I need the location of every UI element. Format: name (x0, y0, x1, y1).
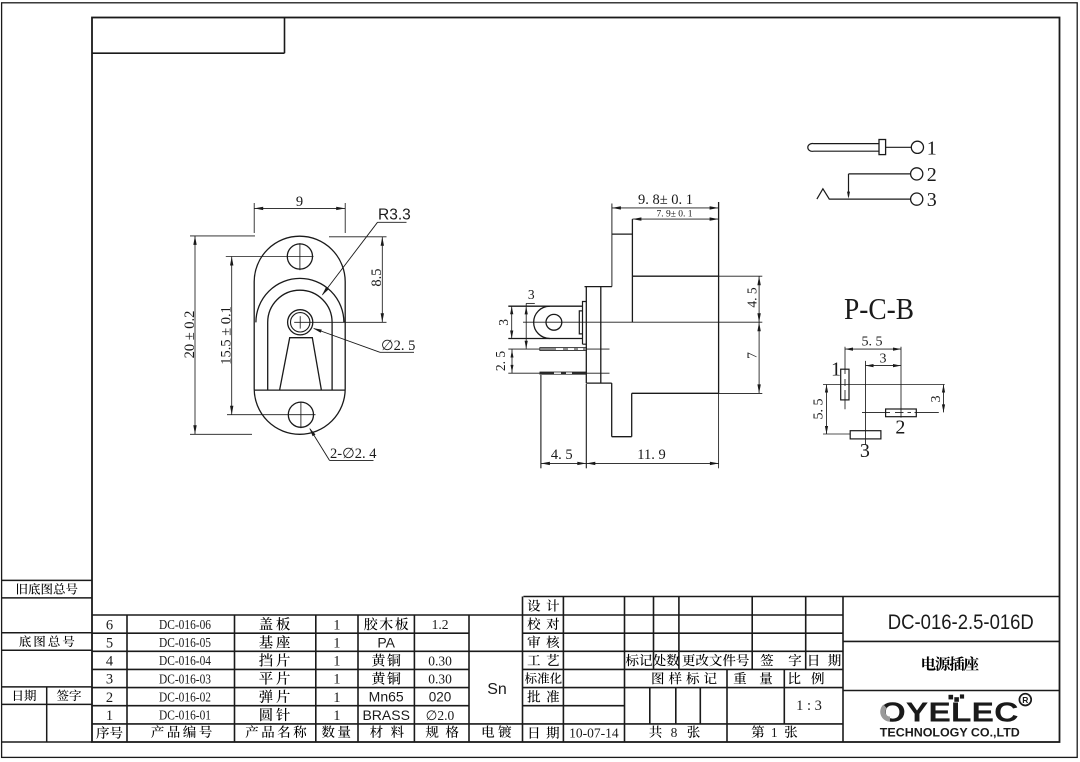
front view outer arch R (256, 278, 344, 322)
approval 日期 (530, 727, 539, 739)
part name row 6 (259, 617, 272, 630)
product name dian-yuan-cha-zuo (922, 656, 935, 670)
side view solder lug (508, 305, 582, 307)
svg-text:1: 1 (106, 708, 113, 724)
label ri-qi left (14, 690, 22, 701)
svg-text:DC-016-06: DC-016-06 (159, 617, 211, 632)
header zhong-liang (734, 672, 746, 684)
material row 6 (364, 617, 377, 630)
svg-text:DC-016-2.5-016D: DC-016-2.5-016D (888, 611, 1034, 634)
label jiu-di-tu-zong-hao (17, 584, 27, 595)
approval 校对 (527, 618, 540, 631)
svg-text:1 : 3: 1 : 3 (796, 698, 822, 714)
header ri-qi mid (809, 655, 818, 667)
front view center pin hole (288, 310, 313, 335)
svg-text:8: 8 (671, 725, 678, 740)
svg-text:Sn: Sn (487, 681, 507, 698)
side view inner vertical edge (631, 219, 633, 322)
side view wide boss (583, 302, 587, 345)
header chu-shu (653, 654, 666, 667)
zhang1 (687, 726, 699, 738)
part name row 1 (260, 708, 272, 721)
schematic terminal circle 1 (911, 141, 923, 153)
front view bottom mounting hole (288, 402, 313, 427)
svg-text:4: 4 (106, 654, 114, 670)
svg-text:DC-016-05: DC-016-05 (159, 635, 211, 650)
svg-text:1: 1 (333, 617, 340, 633)
svg-text:BRASS: BRASS (362, 707, 409, 723)
svg-text:3: 3 (927, 189, 937, 211)
part name row 4 (259, 653, 272, 666)
svg-text:3: 3 (528, 287, 535, 302)
header xu-hao (96, 726, 109, 739)
header chan-pin-bian-hao (151, 725, 164, 738)
svg-text:2. 5: 2. 5 (493, 351, 508, 372)
front view top mounting hole (287, 244, 312, 269)
svg-text:2: 2 (106, 690, 113, 706)
svg-text:4. 5: 4. 5 (551, 447, 573, 463)
front view outer stadium body (254, 236, 345, 434)
svg-text:DC-016-01: DC-016-01 (159, 708, 211, 723)
svg-text:1: 1 (333, 672, 340, 688)
approval 审核 (528, 636, 541, 649)
side view flange bottom step (586, 382, 611, 384)
pcb row line 2 (862, 411, 939, 413)
svg-text:11. 9: 11. 9 (637, 447, 665, 463)
header cai-liao (370, 725, 383, 737)
svg-text:1: 1 (831, 359, 841, 381)
material row 3 (372, 672, 385, 685)
approval 批准 (527, 690, 540, 702)
svg-text:1: 1 (771, 725, 778, 740)
schematic pin 1 plug symbol (808, 143, 879, 151)
part name row 3 (259, 672, 272, 685)
pcb row line 1 (823, 384, 945, 386)
di (752, 725, 765, 737)
svg-text:3: 3 (880, 351, 887, 366)
zhang2 (785, 726, 797, 738)
svg-text:0.30: 0.30 (428, 653, 452, 668)
side view right edge (718, 202, 720, 393)
approval 工艺 (528, 655, 540, 665)
svg-text:3: 3 (860, 440, 870, 462)
left margin column boxes (2, 579, 92, 581)
svg-text:OYELEC: OYELEC (880, 697, 1019, 728)
logo checker dots (949, 695, 954, 700)
top-left accessory box (92, 52, 285, 54)
side view lower-left body lines (540, 375, 542, 468)
header shu-liang (322, 725, 335, 737)
svg-text:20 ± 0.2: 20 ± 0.2 (182, 311, 198, 359)
pcb pad 3 (850, 431, 881, 439)
svg-text:PA: PA (377, 634, 395, 650)
svg-text:9. 8± 0. 1: 9. 8± 0. 1 (638, 192, 693, 208)
header qian-zi (761, 654, 774, 666)
schematic wire 2 (849, 173, 911, 175)
svg-text:5. 5: 5. 5 (862, 335, 883, 350)
svg-text:4. 5: 4. 5 (744, 287, 759, 308)
header biao-ji (626, 654, 639, 666)
svg-text:3: 3 (106, 672, 113, 688)
header chan-pin-ming-cheng (246, 725, 259, 738)
material row 4 (372, 654, 385, 667)
svg-text:R3.3: R3.3 (378, 207, 411, 224)
front view bottom chord line (254, 389, 345, 391)
svg-text:10-07-14: 10-07-14 (569, 726, 619, 741)
svg-text:DC-016-02: DC-016-02 (159, 690, 211, 705)
side view pin 2 flat pin (540, 372, 587, 375)
gong (649, 726, 661, 738)
svg-text:5. 5: 5. 5 (812, 399, 827, 420)
right block dividers (843, 640, 1060, 642)
svg-text:1: 1 (333, 708, 340, 724)
header dian-du (483, 725, 494, 737)
logo O gray segment (883, 706, 890, 719)
front view inner arch (268, 290, 332, 390)
svg-text:020: 020 (429, 690, 452, 705)
schematic wire 3 with spring contact (817, 189, 911, 199)
svg-text:2: 2 (927, 164, 937, 186)
side view bottom edge (632, 392, 719, 394)
schematic terminal circle 3 (911, 193, 923, 205)
svg-text:P-C-B: P-C-B (844, 291, 914, 326)
svg-text:1: 1 (333, 636, 340, 652)
approval 设计 (528, 599, 541, 611)
svg-text:2-∅2. 4: 2-∅2. 4 (330, 446, 377, 462)
svg-text:3: 3 (929, 396, 944, 403)
side view internal horizontal line (632, 275, 718, 277)
side view flange plate (585, 287, 587, 384)
side view narrow boss (579, 311, 582, 334)
title block horizontal lines (523, 596, 1059, 598)
side view body outline top step (612, 233, 633, 235)
svg-text:DC-016-03: DC-016-03 (159, 671, 211, 686)
label qian-zi left (57, 690, 69, 701)
svg-text:5: 5 (106, 636, 113, 652)
registered trademark symbol (1019, 694, 1031, 706)
svg-text:1: 1 (333, 654, 340, 670)
header gui-ge (426, 725, 439, 737)
svg-text:∅2. 5: ∅2. 5 (381, 338, 415, 354)
svg-text:DC-016-04: DC-016-04 (159, 653, 211, 668)
svg-text:2: 2 (895, 416, 905, 438)
svg-text:1: 1 (333, 690, 340, 706)
header bi-li (789, 672, 801, 684)
svg-text:3: 3 (496, 319, 511, 326)
svg-text:7: 7 (744, 352, 759, 359)
part name row 2 (259, 690, 272, 703)
front view spring trapezoid (280, 338, 322, 390)
svg-text:R: R (1022, 695, 1028, 705)
side view axis centerline (523, 321, 762, 323)
side view bottom mounting tab (631, 393, 633, 436)
pcb pad 1 (841, 369, 849, 400)
svg-text:15.5 ± 0.1: 15.5 ± 0.1 (219, 306, 235, 365)
svg-text:1.2: 1.2 (432, 617, 449, 632)
header tu-yang-biao-ji (652, 672, 663, 684)
svg-text:Mn65: Mn65 (369, 689, 404, 705)
svg-text:1: 1 (927, 137, 937, 159)
svg-text:0.30: 0.30 (428, 672, 452, 687)
svg-text:9: 9 (296, 194, 303, 210)
approval 标准化 (525, 672, 537, 684)
svg-text:6: 6 (106, 617, 113, 633)
side view lug hole (546, 314, 562, 330)
header geng-gai-wen-jian-hao (682, 654, 694, 666)
side view pin 1 flat pin (540, 348, 587, 351)
pcb pad 2 (886, 409, 917, 417)
svg-text:∅2.0: ∅2.0 (426, 708, 455, 723)
svg-text:7. 9± 0. 1: 7. 9± 0. 1 (656, 209, 692, 219)
title block vertical lines (126, 615, 128, 742)
schematic terminal circle 2 (911, 168, 923, 180)
part name row 5 (259, 635, 273, 648)
label di-tu-zong-hao (19, 635, 31, 647)
svg-text:TECHNOLOGY CO.,LTD: TECHNOLOGY CO.,LTD (880, 726, 1020, 740)
